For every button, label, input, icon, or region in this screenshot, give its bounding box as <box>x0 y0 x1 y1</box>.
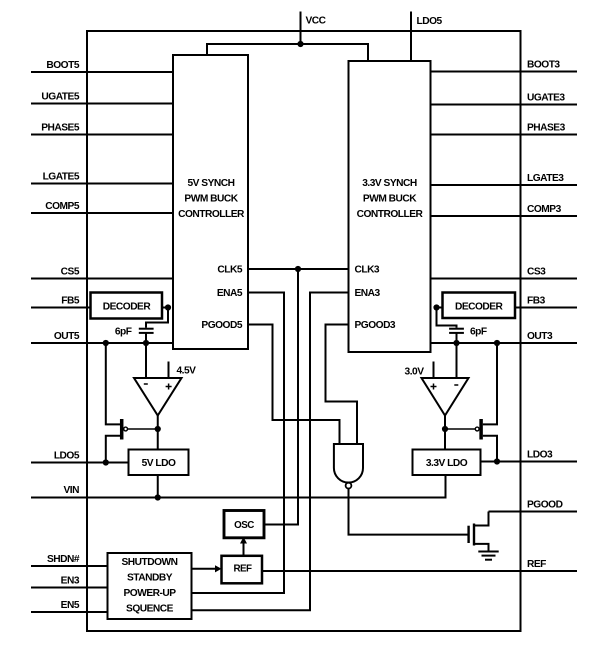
pin CS3 label <box>527 267 546 278</box>
wire decoder-R to node <box>437 307 443 309</box>
wire capacitor C2 to OUT3 <box>456 333 458 343</box>
svg-text:EN3: EN3 <box>61 576 80 587</box>
wire comparator U3 node to 5V LDO top <box>157 429 159 450</box>
svg-text:LGATE3: LGATE3 <box>527 173 564 184</box>
svg-text:OUT3: OUT3 <box>527 331 553 342</box>
wire Q2 source to LDO3 net <box>483 436 497 462</box>
pin PHASE3 wire <box>431 134 578 136</box>
wire ENA3 to sequencer <box>192 293 349 611</box>
transistor Q2 gate bubble <box>475 427 479 431</box>
svg-text:LDO5: LDO5 <box>54 451 80 462</box>
node decoder-L output <box>165 304 171 310</box>
svg-text:VIN: VIN <box>64 485 80 496</box>
comparator U4 plus sign <box>431 384 437 390</box>
svg-text:CS3: CS3 <box>527 267 546 278</box>
pin OUT3 wire <box>431 342 578 344</box>
comparator U3 plus sign <box>166 384 172 390</box>
node OUT5 capacitor junction <box>143 340 149 346</box>
svg-text:LDO3: LDO3 <box>527 450 553 461</box>
pin LDO3 label <box>527 450 553 461</box>
svg-text:FB3: FB3 <box>527 296 546 307</box>
pin LDO3 wire <box>481 461 578 463</box>
transistor Q1 channel bar <box>120 419 124 440</box>
wire decoder-L to node <box>162 307 168 309</box>
pin LDO5 label <box>54 451 80 462</box>
transistor Q3 channel bar <box>473 524 475 546</box>
block U2 title <box>357 178 424 220</box>
pin OUT3 label <box>527 331 553 342</box>
wire decoder-R node to capacitor <box>437 308 457 328</box>
block 5V LDO label <box>142 458 176 469</box>
pin UGATE3 wire <box>431 104 578 106</box>
pin BOOT5 wire <box>31 71 173 73</box>
svg-text:ENA5: ENA5 <box>217 288 243 299</box>
pin label ENA5 <box>217 288 243 299</box>
wire CLK to OSC <box>264 269 299 525</box>
block 5V LDO <box>129 450 189 476</box>
net LDO5 top pin stub <box>410 12 412 62</box>
comparator U3 <box>134 378 182 416</box>
node OUT3 transistor branch <box>494 340 500 346</box>
wire NAND output to Q3 gate <box>349 489 468 535</box>
capacitor C2 6pF <box>449 329 464 333</box>
svg-text:3.0V: 3.0V <box>405 367 425 378</box>
node VCC junction <box>297 41 303 47</box>
pin SHDN# wire <box>31 565 108 567</box>
svg-text:CONTROLLER: CONTROLLER <box>357 209 424 220</box>
wire PGOOD5 to NAND input <box>248 325 340 445</box>
block 3.3V LDO <box>413 450 481 476</box>
net 3.0V label <box>405 367 425 378</box>
svg-text:DECODER: DECODER <box>103 302 152 313</box>
wire REF to OSC arrow <box>240 537 247 556</box>
svg-text:3.3V LDO: 3.3V LDO <box>426 458 468 469</box>
pin CS5 wire <box>31 278 173 280</box>
wire 5V LDO bottom to VIN <box>157 475 159 498</box>
pin EN3 label <box>61 576 80 587</box>
pin EN5 label <box>61 600 80 611</box>
node comparator U4 output <box>442 426 448 432</box>
wire OUT3 to Q2 drain <box>483 343 497 424</box>
node OUT5 transistor branch <box>103 340 109 346</box>
net VCC label <box>306 16 327 27</box>
svg-text:BOOT5: BOOT5 <box>46 60 79 71</box>
block shutdown sequencer <box>108 553 192 619</box>
node comparator U3 output <box>155 426 161 432</box>
ground symbol <box>478 552 498 560</box>
wire Q2 gate to comparator output <box>445 428 475 430</box>
svg-text:COMP5: COMP5 <box>45 201 80 212</box>
wire VCC rail <box>207 44 368 61</box>
net 4.5V label <box>177 366 197 377</box>
pin PHASE3 label <box>527 123 566 134</box>
svg-text:ENA3: ENA3 <box>355 288 381 299</box>
wire sequencer to REF arrow <box>192 565 222 572</box>
node OUT3 capacitor junction <box>453 340 459 346</box>
svg-text:PGOOD: PGOOD <box>527 500 563 511</box>
capacitor C1 label 6pF <box>115 326 132 337</box>
svg-text:PWM BUCK: PWM BUCK <box>184 193 238 204</box>
pin COMP5 wire <box>31 212 173 214</box>
comparator U4 minus sign <box>454 384 458 386</box>
pin label CLK5 <box>217 265 242 276</box>
net 3.0V reference stub <box>433 362 435 379</box>
pin PHASE5 label <box>41 123 80 134</box>
wire Q1 source to LDO5 net <box>106 436 120 463</box>
pin UGATE5 wire <box>31 103 173 105</box>
pin LGATE5 wire <box>31 183 173 185</box>
svg-text:PGOOD3: PGOOD3 <box>355 320 396 331</box>
pin PHASE5 wire <box>31 134 173 136</box>
svg-text:UGATE3: UGATE3 <box>527 93 565 104</box>
svg-text:SHDN#: SHDN# <box>47 554 80 565</box>
net VCC pin stub <box>300 12 302 45</box>
pin LGATE3 label <box>527 173 564 184</box>
svg-text:REF: REF <box>527 559 546 570</box>
pin CS3 wire <box>431 278 578 280</box>
pin VIN wire <box>31 475 446 498</box>
svg-text:REF: REF <box>233 563 252 574</box>
svg-text:UGATE5: UGATE5 <box>41 92 79 103</box>
block U2 3.3V synch PWM buck controller <box>349 61 431 352</box>
pin SHDN# label <box>47 554 80 565</box>
pin PGOOD label <box>527 500 563 511</box>
pin LDO5 wire <box>31 462 129 464</box>
wire CLK5-CLK3 <box>248 268 349 270</box>
svg-text:LGATE5: LGATE5 <box>43 172 80 183</box>
pin BOOT3 wire <box>431 71 578 73</box>
svg-text:BOOT3: BOOT3 <box>527 60 560 71</box>
pin LGATE5 label <box>43 172 80 183</box>
pin UGATE3 label <box>527 93 565 104</box>
pin FB5 label <box>61 296 80 307</box>
pin EN5 wire <box>31 611 108 613</box>
svg-text:3.3V SYNCH: 3.3V SYNCH <box>362 178 417 189</box>
pin label PGOOD5 <box>201 320 242 331</box>
svg-text:4.5V: 4.5V <box>177 366 197 377</box>
block DECODER right label <box>455 302 504 313</box>
gate U5 NAND body <box>334 444 363 483</box>
svg-text:STANDBY: STANDBY <box>127 573 173 584</box>
block DECODER left label <box>103 302 152 313</box>
pin FB3 wire <box>515 307 577 309</box>
svg-text:POWER-UP: POWER-UP <box>123 588 176 599</box>
wire OUT5 to Q1 drain <box>106 343 120 424</box>
svg-text:SQUENCE: SQUENCE <box>126 603 174 614</box>
pin PGOOD wire <box>489 511 578 513</box>
pin CS5 label <box>61 267 80 278</box>
pin REF label <box>527 559 546 570</box>
svg-text:COMP3: COMP3 <box>527 204 562 215</box>
transistor Q1 gate bubble <box>124 427 128 431</box>
block OSC <box>224 511 264 538</box>
pin BOOT5 label <box>46 60 79 71</box>
svg-text:CS5: CS5 <box>61 267 80 278</box>
net LDO5 top label <box>417 16 443 27</box>
svg-text:CLK5: CLK5 <box>217 265 242 276</box>
svg-text:EN5: EN5 <box>61 600 80 611</box>
svg-text:OSC: OSC <box>234 520 254 531</box>
pin FB3 label <box>527 296 546 307</box>
block REF <box>222 556 263 584</box>
node LDO3 junction <box>494 458 500 464</box>
wire Q3 drain to PGOOD <box>474 512 489 526</box>
gate U5 output bubble <box>346 483 352 489</box>
wire OUT3 to comparator U4 inverting input <box>456 343 458 378</box>
block REF label <box>233 563 252 574</box>
IC boundary box <box>87 31 521 631</box>
wire OUT5 to comparator U3 inverting input <box>145 343 147 378</box>
block OSC label <box>234 520 254 531</box>
pin UGATE5 label <box>41 92 79 103</box>
svg-text:PGOOD5: PGOOD5 <box>201 320 242 331</box>
pin EN3 wire <box>31 587 108 589</box>
wire comparator U4 output <box>444 416 446 430</box>
node CLK junction <box>295 266 301 272</box>
transistor Q2 channel bar <box>479 419 483 440</box>
block 3.3V LDO label <box>426 458 468 469</box>
wire Q1 gate to comparator output <box>128 428 158 430</box>
svg-text:PHASE3: PHASE3 <box>527 123 566 134</box>
pin label PGOOD3 <box>355 320 396 331</box>
block DECODER left <box>91 293 163 319</box>
pin COMP3 wire <box>431 215 578 217</box>
pin REF wire <box>262 570 577 572</box>
node LDO5 junction <box>103 459 109 465</box>
comparator U3 minus sign <box>144 383 148 385</box>
net 4.5V reference stub <box>168 362 170 379</box>
svg-text:DECODER: DECODER <box>455 302 504 313</box>
svg-text:PWM BUCK: PWM BUCK <box>363 193 417 204</box>
block U1 5V synch PWM buck controller <box>173 55 248 349</box>
svg-text:6pF: 6pF <box>115 326 132 337</box>
transistor Q3 gate bar <box>467 526 469 543</box>
pin OUT5 wire <box>31 342 173 344</box>
capacitor C1 6pF <box>139 329 154 333</box>
comparator U4 <box>422 378 469 416</box>
capacitor C2 label 6pF <box>470 326 487 337</box>
wire decoder-L node to capacitor <box>146 308 168 328</box>
svg-text:5V SYNCH: 5V SYNCH <box>188 178 235 189</box>
pin BOOT3 label <box>527 60 560 71</box>
wire Q3 source to ground <box>474 544 489 552</box>
svg-text:5V LDO: 5V LDO <box>142 458 176 469</box>
pin OUT5 label <box>54 331 80 342</box>
pin COMP3 label <box>527 204 562 215</box>
node VIN junction <box>155 494 161 500</box>
svg-text:CONTROLLER: CONTROLLER <box>178 209 245 220</box>
pin COMP5 label <box>45 201 80 212</box>
svg-text:PHASE5: PHASE5 <box>41 123 80 134</box>
block shutdown sequencer label <box>122 557 178 614</box>
svg-text:LDO5: LDO5 <box>417 16 443 27</box>
pin LGATE3 wire <box>431 184 578 186</box>
wire ENA5 to sequencer <box>192 293 285 594</box>
wire PGOOD3 to NAND input <box>326 325 358 445</box>
wire capacitor C1 to OUT5 <box>145 333 147 343</box>
svg-text:VCC: VCC <box>306 16 327 27</box>
svg-text:OUT5: OUT5 <box>54 331 80 342</box>
svg-text:CLK3: CLK3 <box>355 265 380 276</box>
pin label CLK3 <box>355 265 380 276</box>
wire comparator U3 output <box>157 416 159 430</box>
pin VIN label <box>64 485 80 496</box>
pin label ENA3 <box>355 288 381 299</box>
block U1 title <box>178 178 245 220</box>
block DECODER right <box>443 293 516 319</box>
node decoder-R output <box>433 304 439 310</box>
svg-text:FB5: FB5 <box>61 296 80 307</box>
svg-text:SHUTDOWN: SHUTDOWN <box>122 557 178 568</box>
pin FB5 wire <box>31 307 92 309</box>
wire comparator U4 node to 3.3V LDO top <box>444 429 446 450</box>
svg-text:6pF: 6pF <box>470 326 487 337</box>
